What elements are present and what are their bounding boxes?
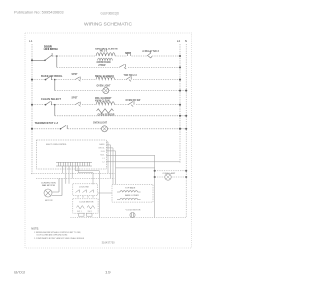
element coil bottom bbox=[117, 198, 141, 199]
broil coil rung2 bbox=[96, 77, 115, 80]
neutral rail N bbox=[70, 44, 186, 218]
heater coil bake element bbox=[96, 53, 115, 56]
svg-text:FAN MOTOR: FAN MOTOR bbox=[42, 184, 55, 187]
svg-text:BROIL ELEMENT: BROIL ELEMENT bbox=[95, 76, 114, 78]
bus wire 1 bbox=[31, 172, 115, 174]
svg-text:1. WIRING SHOWN WITH ALL CONT: 1. WIRING SHOWN WITH ALL CONTROLS SET TO… bbox=[34, 231, 81, 234]
svg-text:TOP BAKE: TOP BAKE bbox=[125, 187, 136, 190]
rung 2 upper wire bbox=[32, 79, 180, 81]
svg-text:316437750: 316437750 bbox=[102, 241, 116, 245]
switch SW4 thermostat bbox=[61, 125, 68, 129]
svg-text:CLEAN SELECT: CLEAN SELECT bbox=[41, 98, 62, 101]
svg-text:BAKE OR BROIL: BAKE OR BROIL bbox=[41, 75, 63, 78]
svg-text:LOCK SW: LOCK SW bbox=[79, 186, 89, 188]
box B tabs bbox=[79, 213, 85, 216]
wire to neutral bbox=[155, 170, 187, 172]
svg-text:LOCK SWITCH: LOCK SWITCH bbox=[44, 49, 58, 51]
oven elements box bbox=[112, 184, 153, 202]
switch SW3 selector bbox=[46, 101, 55, 115]
fuse loop rung1 bbox=[127, 53, 130, 56]
svg-text:DOOR: DOOR bbox=[44, 45, 52, 49]
svg-text:NOTE:: NOTE: bbox=[31, 228, 39, 231]
svg-text:400W CLEAN: 400W CLEAN bbox=[95, 100, 110, 103]
svg-text:LOCK MOTOR: LOCK MOTOR bbox=[80, 201, 94, 203]
svg-text:OVEN LIGHT: OVEN LIGHT bbox=[93, 122, 108, 124]
junction dots right rails bbox=[179, 55, 181, 57]
svg-text:MOTOR: MOTOR bbox=[45, 200, 53, 202]
svg-text:DOOR CLOSED AND OVEN UNLOCKED.: DOOR CLOSED AND OVEN UNLOCKED. bbox=[37, 234, 68, 237]
svg-text:THERMOSTAT 1-2: THERMOSTAT 1-2 bbox=[35, 123, 59, 125]
svg-text:OVEN SENSOR: OVEN SENSOR bbox=[98, 115, 115, 117]
convection fan motor bbox=[44, 178, 62, 197]
rung 1 upper wire bbox=[52, 55, 180, 57]
svg-text:BROIL: BROIL bbox=[99, 147, 106, 149]
oven lamp rung2 bbox=[103, 88, 109, 94]
EOC right wires to risers bbox=[106, 142, 115, 185]
svg-text:A RELAY NO 3: A RELAY NO 3 bbox=[142, 50, 159, 53]
EOC electronic oven control box bbox=[36, 140, 106, 169]
svg-text:* LOCK MOTOR: * LOCK MOTOR bbox=[125, 210, 141, 212]
spst switch rung3 left bbox=[75, 102, 81, 107]
rung 3 lower wire bbox=[55, 115, 186, 117]
switch SW2 selector bbox=[46, 76, 55, 90]
L1 rail bbox=[31, 44, 33, 175]
rung 4 wire bbox=[32, 128, 186, 130]
box B right wire bbox=[98, 171, 112, 218]
element coil top bbox=[117, 191, 141, 192]
coil rung3 bbox=[96, 102, 115, 105]
svg-text:TOD SW 2-3: TOD SW 2-3 bbox=[124, 75, 138, 77]
svg-text:OVEN LAMP: OVEN LAMP bbox=[163, 172, 176, 175]
door switch rung3 bbox=[128, 101, 134, 106]
dots lamp wires bbox=[154, 170, 156, 172]
schematic border frame bbox=[25, 33, 192, 248]
EOC bottom pin comb bbox=[56, 162, 92, 166]
svg-text:19: 19 bbox=[105, 271, 111, 275]
svg-text:SW 1: SW 1 bbox=[77, 211, 82, 213]
lock switch box A bbox=[73, 184, 98, 196]
svg-text:SPST: SPST bbox=[72, 97, 79, 99]
svg-text:SPST: SPST bbox=[125, 53, 132, 55]
tod switch rung2 bbox=[126, 76, 131, 81]
spst switch rung2 left bbox=[75, 77, 81, 82]
bus wire 2 bbox=[36, 177, 115, 179]
svg-text:BAKE: BAKE bbox=[99, 143, 105, 146]
svg-text:GLEF368CQD: GLEF368CQD bbox=[101, 12, 120, 16]
switch rung1 lower bbox=[119, 64, 126, 69]
wire W1 down right bbox=[106, 155, 154, 217]
svg-text:BAKE LOWER: BAKE LOWER bbox=[125, 194, 139, 197]
junction dots L1 bbox=[31, 59, 33, 61]
oven lamp right bbox=[165, 174, 171, 180]
svg-text:N: N bbox=[185, 39, 187, 43]
L2 rail bbox=[179, 44, 181, 163]
svg-text:8/03: 8/03 bbox=[14, 271, 25, 275]
rung 1 lower wire bbox=[57, 66, 180, 68]
svg-text:WIRING SCHEMATIC: WIRING SCHEMATIC bbox=[84, 22, 132, 27]
svg-text:ELECT. OVEN CONTROL: ELECT. OVEN CONTROL bbox=[46, 144, 67, 146]
svg-text:NO 1-2: NO 1-2 bbox=[100, 51, 108, 53]
wire L2 feed bbox=[106, 161, 180, 163]
svg-text:SPST: SPST bbox=[72, 74, 79, 76]
heater coil second winding bbox=[98, 58, 113, 60]
switch SW1 door lock bbox=[32, 53, 57, 67]
rung 2 lower wire bbox=[55, 90, 186, 92]
svg-text:L1: L1 bbox=[29, 39, 33, 43]
svg-text:OVEN LIGHT: OVEN LIGHT bbox=[97, 85, 112, 87]
wire cross link bbox=[116, 167, 155, 169]
lamp wire bbox=[155, 176, 187, 178]
svg-text:2750W: 2750W bbox=[98, 65, 106, 67]
EOC pin labels bbox=[99, 143, 106, 164]
svg-text:3400W BAKE: 3400W BAKE bbox=[96, 61, 111, 64]
rung 3 upper wire bbox=[32, 104, 180, 106]
thermal switch SPST rung1 bbox=[147, 51, 152, 58]
svg-text:OVEN DR SW: OVEN DR SW bbox=[126, 100, 142, 102]
svg-text:Publication No: 5995439603: Publication No: 5995439603 bbox=[14, 11, 64, 15]
oven lamp rung4 bbox=[102, 126, 108, 132]
svg-text:SW 2: SW 2 bbox=[88, 211, 93, 213]
svg-text:DLB: DLB bbox=[101, 151, 106, 153]
pin drop wires bbox=[63, 166, 100, 184]
switch pivots bbox=[44, 60, 46, 62]
svg-text:L2: L2 bbox=[177, 39, 181, 43]
oven sensor zigzag bbox=[97, 109, 114, 113]
svg-text:2. COMPONENTS NOTED * ARE NOT: 2. COMPONENTS NOTED * ARE NOT USED ON AL… bbox=[34, 237, 85, 240]
lock motor box B bbox=[73, 199, 98, 213]
